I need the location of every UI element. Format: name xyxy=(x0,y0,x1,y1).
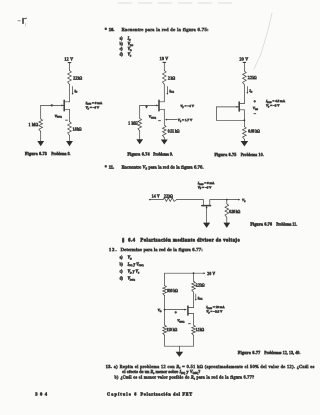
label problem 12 heading xyxy=(109,247,203,252)
svg-text:VS = 1.7 V: VS = 1.7 V xyxy=(178,118,193,123)
transistor Q4 JFET rotated xyxy=(202,200,211,223)
wire xyxy=(139,105,141,118)
svg-text:Problema 10.: Problema 10. xyxy=(241,153,264,157)
current ID arrow xyxy=(72,87,78,95)
label caption fig 6.77 xyxy=(238,351,301,356)
label item a xyxy=(120,37,131,42)
svg-text:ID: ID xyxy=(73,89,77,94)
svg-text:+: + xyxy=(254,98,257,103)
wire xyxy=(40,105,42,118)
resistor RD3 2.2 kΩ xyxy=(243,71,257,85)
node VDD2 18 V xyxy=(160,56,169,62)
resistor R1 910 kΩ xyxy=(163,286,178,296)
svg-text:b)¿Cuál es el menor valor posi: b)¿Cuál es el menor valor posible de Rs … xyxy=(115,374,255,380)
resistor RS2 0.51 kΩ xyxy=(163,125,180,138)
label problem 11 heading xyxy=(105,165,204,171)
node VS with arrow label xyxy=(165,118,193,123)
svg-text:VP = −6 V: VP = −6 V xyxy=(86,105,100,110)
label VS output arrow xyxy=(238,198,246,203)
transistor Q1 JFET xyxy=(41,100,70,111)
node A xyxy=(18,18,27,26)
node VDD3 20 V xyxy=(240,56,249,62)
svg-text:VDS: VDS xyxy=(128,42,134,47)
resistor R4 2.2 kΩ xyxy=(163,195,177,202)
svg-text:910 kΩ: 910 kΩ xyxy=(167,289,178,293)
node VG xyxy=(158,308,166,313)
svg-text:Problema 9.: Problema 9. xyxy=(153,152,173,156)
label VGS with polarity xyxy=(253,98,259,116)
svg-text:18 V: 18 V xyxy=(160,56,169,61)
svg-text:Determine para la red de la fi: Determine para la red de la figura 6.77: xyxy=(121,247,203,252)
wire xyxy=(193,292,195,308)
svg-text:12.: 12. xyxy=(109,247,116,252)
wire xyxy=(163,85,165,102)
svg-text:20 V: 20 V xyxy=(207,272,215,276)
ground xyxy=(176,346,184,357)
svg-text:VS: VS xyxy=(242,198,246,203)
resistor RS4 1.1 kΩ xyxy=(192,325,205,335)
svg-text:14 V: 14 V xyxy=(152,195,160,199)
svg-text:11.: 11. xyxy=(109,165,114,170)
svg-text:VS: VS xyxy=(128,53,132,58)
wire xyxy=(163,109,165,125)
svg-text:ID: ID xyxy=(248,89,252,94)
node junction output xyxy=(226,199,228,201)
svg-text:b): b) xyxy=(120,42,124,46)
svg-text:VG: VG xyxy=(128,255,132,260)
label caption fig 6.76 xyxy=(250,222,297,226)
wire xyxy=(243,85,245,104)
svg-text:c): c) xyxy=(120,270,124,274)
svg-text:VGSQ: VGSQ xyxy=(177,319,184,324)
svg-text:§ 6.4 Polarización mediante: § 6.4 Polarización mediante divisor de v… xyxy=(122,238,240,243)
label item b xyxy=(120,262,144,267)
svg-text:Encuentre VS para la red de la: Encuentre VS para la red de la figura 6.… xyxy=(122,165,204,171)
svg-text:Figura 6.76: Figura 6.76 xyxy=(250,222,272,226)
label item a xyxy=(120,255,132,260)
svg-text:12 V: 12 V xyxy=(64,57,73,62)
label device params Q3 xyxy=(265,99,286,108)
wire gate xyxy=(165,309,187,311)
label item d xyxy=(120,276,136,281)
wire xyxy=(210,199,239,201)
wire xyxy=(193,273,195,281)
svg-text:2.2 kΩ: 2.2 kΩ xyxy=(196,284,205,288)
svg-text:Problemas 12, 13, 49.: Problemas 12, 13, 49. xyxy=(264,351,300,356)
svg-text:+: + xyxy=(145,104,148,109)
label VGSQ with polarity xyxy=(175,310,192,327)
current ID arrow xyxy=(246,87,252,94)
wire xyxy=(40,132,42,142)
wire xyxy=(163,138,165,140)
resistor RD2 2 kΩ xyxy=(163,71,176,85)
ground xyxy=(37,141,44,146)
svg-text:−: − xyxy=(158,118,161,123)
label caption fig 6.73 xyxy=(25,152,71,156)
svg-text:VG: VG xyxy=(158,308,162,313)
node VDD1 12 V xyxy=(64,57,73,63)
svg-text:VP = −4 V: VP = −4 V xyxy=(180,104,194,109)
label VGSQ with polarity xyxy=(51,103,69,123)
svg-text:Problema 11.: Problema 11. xyxy=(276,222,297,226)
svg-text:Figura 6.73: Figura 6.73 xyxy=(25,152,47,156)
wire xyxy=(164,273,166,285)
resistor R2 110 kΩ xyxy=(163,325,178,335)
transistor Q2 JFET xyxy=(140,100,165,111)
label caption fig 6.75 xyxy=(215,153,264,157)
label running footer xyxy=(107,392,192,397)
svg-text:b): b) xyxy=(120,262,124,266)
svg-text:1 MΩ: 1 MΩ xyxy=(128,121,138,125)
ground xyxy=(241,141,249,146)
svg-text:VD: VD xyxy=(128,47,132,52)
svg-text:ID: ID xyxy=(127,37,131,42)
label item c xyxy=(120,47,132,52)
wire xyxy=(69,63,71,71)
node junction source xyxy=(244,119,246,121)
label problem 16 heading xyxy=(105,27,209,32)
wire top rail xyxy=(165,272,206,274)
svg-text:−: − xyxy=(65,118,68,123)
svg-text:IDQ: IDQ xyxy=(168,89,174,94)
svg-text:+: + xyxy=(175,310,178,315)
ground xyxy=(66,141,73,146)
transistor Q3 JFET xyxy=(216,102,244,111)
svg-text:Figura 6.77: Figura 6.77 xyxy=(238,351,260,355)
svg-text:*: * xyxy=(105,165,107,170)
resistor RS1 1.8 kΩ xyxy=(68,122,82,136)
svg-text:110 kΩ: 110 kΩ xyxy=(167,328,178,332)
svg-text:d): d) xyxy=(120,276,124,280)
svg-text:a): a) xyxy=(120,37,124,41)
svg-text:0.68 kΩ: 0.68 kΩ xyxy=(248,130,260,134)
svg-text:0.39 kΩ: 0.39 kΩ xyxy=(229,210,240,214)
svg-text:2.2 kΩ: 2.2 kΩ xyxy=(73,76,82,80)
wire xyxy=(139,131,141,139)
svg-text:Figura 6.75: Figura 6.75 xyxy=(215,153,237,157)
svg-text:0.51 kΩ: 0.51 kΩ xyxy=(168,129,180,133)
svg-text:2 kΩ: 2 kΩ xyxy=(168,76,175,80)
wire xyxy=(177,199,204,201)
resistor RS3 0.68 kΩ xyxy=(243,127,261,140)
resistor RD1 2.2 kΩ xyxy=(68,71,83,85)
svg-text:VP = −3 V: VP = −3 V xyxy=(266,104,280,109)
wire xyxy=(243,110,245,127)
wire xyxy=(193,314,195,326)
wire xyxy=(163,63,165,71)
wire with left arrow xyxy=(149,199,163,201)
label VGSQ with polarity xyxy=(145,104,161,123)
label device params Q4 xyxy=(197,181,215,190)
wire xyxy=(118,2,232,4)
node junction top xyxy=(193,272,195,274)
svg-text:VDSQ: VDSQ xyxy=(128,276,136,281)
svg-text:VD y VS: VD y VS xyxy=(128,270,140,275)
wire xyxy=(193,335,195,346)
label device params Q1 xyxy=(85,101,103,111)
wire xyxy=(69,109,71,121)
ground xyxy=(223,223,230,228)
wire bottom rail xyxy=(165,345,194,347)
ground xyxy=(203,223,210,228)
svg-text:VGSQ: VGSQ xyxy=(149,115,156,120)
label caption fig 6.74 xyxy=(128,152,174,156)
svg-text:Problema 8.: Problema 8. xyxy=(51,152,70,156)
svg-text:c): c) xyxy=(120,47,124,51)
wire xyxy=(164,296,166,326)
svg-text:Capítulo 6: Capítulo 6 xyxy=(107,392,136,397)
svg-text:Figura 6.74: Figura 6.74 xyxy=(128,152,150,156)
ground xyxy=(136,139,143,144)
svg-text:VGSQ: VGSQ xyxy=(55,114,62,119)
svg-text:1.1 kΩ: 1.1 kΩ xyxy=(196,328,205,332)
svg-text:20 V: 20 V xyxy=(240,56,249,61)
transistor Q5 JFET xyxy=(188,306,194,315)
svg-text:2.2 kΩ: 2.2 kΩ xyxy=(164,195,173,199)
ground xyxy=(161,140,168,145)
current IDQ arrow xyxy=(195,294,203,301)
svg-text:*: * xyxy=(105,27,107,32)
current IDQ arrow xyxy=(166,87,174,95)
wire xyxy=(69,135,71,141)
resistor RD4 2.2 kΩ xyxy=(192,281,205,292)
svg-text:Polarización del FET: Polarización del FET xyxy=(141,392,193,397)
svg-text:VP = −3.5 V: VP = −3.5 V xyxy=(206,309,223,314)
svg-text:d): d) xyxy=(120,53,124,57)
svg-text:Encuentre para la red de la fi: Encuentre para la red de la figura 6.75: xyxy=(122,27,209,32)
label item c xyxy=(120,270,140,275)
svg-text:VP = −6 V: VP = −6 V xyxy=(198,185,212,190)
svg-text:2.2 kΩ: 2.2 kΩ xyxy=(248,76,257,80)
wire xyxy=(243,139,245,141)
wire xyxy=(164,335,166,346)
label item d xyxy=(120,53,132,58)
label item b xyxy=(120,42,134,47)
wire xyxy=(69,85,71,102)
resistor RG1 1 MΩ xyxy=(29,119,43,132)
wire gate loop xyxy=(216,107,244,120)
svg-text:−: − xyxy=(254,111,257,116)
wire xyxy=(254,13,272,69)
svg-text:−: − xyxy=(188,321,191,326)
svg-text:a): a) xyxy=(120,255,124,259)
svg-text:IDQ y VGSQ: IDQ y VGSQ xyxy=(127,262,144,267)
svg-text:304: 304 xyxy=(35,391,47,396)
svg-text:IDQ: IDQ xyxy=(197,296,203,301)
wire xyxy=(243,63,245,71)
resistor R5 0.39 kΩ xyxy=(225,200,241,218)
svg-text:1 MΩ: 1 MΩ xyxy=(29,123,39,127)
svg-text:1.8 kΩ: 1.8 kΩ xyxy=(73,128,82,132)
wire xyxy=(226,217,228,222)
resistor RG2 1 MΩ xyxy=(128,118,141,130)
label device params Q5 xyxy=(205,305,225,314)
svg-text:16.: 16. xyxy=(109,27,115,32)
